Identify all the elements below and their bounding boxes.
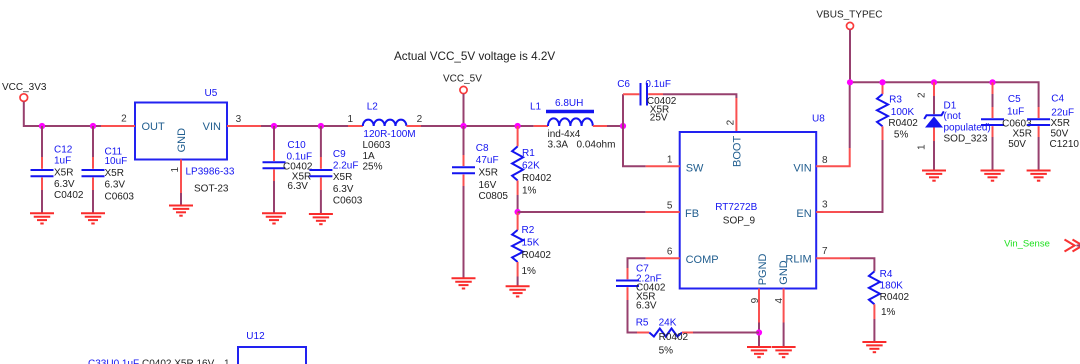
wire COMP to C7 [628, 258, 646, 268]
svg-text:6.3V: 6.3V [287, 181, 308, 192]
wire RLIM to R4 [850, 258, 874, 271]
svg-text:U8: U8 [812, 114, 825, 125]
svg-text:L0603: L0603 [363, 140, 391, 151]
svg-text:C33U0.1uF: C33U0.1uF [88, 359, 139, 364]
svg-text:62K: 62K [522, 161, 540, 172]
power port VCC_5V [443, 74, 482, 94]
power port VCC_3V3 [2, 82, 47, 101]
svg-text:VCC_3V3: VCC_3V3 [2, 82, 47, 93]
svg-text:LP3986-33: LP3986-33 [186, 166, 235, 177]
svg-text:3.3A: 3.3A [548, 140, 569, 151]
svg-text:5%: 5% [894, 130, 909, 141]
svg-text:SOD_323: SOD_323 [944, 134, 988, 145]
svg-text:6.3V: 6.3V [333, 184, 354, 195]
ground R4 [862, 342, 886, 352]
pin 8 VIN stub [816, 148, 850, 166]
wire L1 to SW node [607, 125, 623, 127]
svg-text:10uF: 10uF [105, 156, 128, 167]
inductor L1 [530, 98, 615, 151]
svg-text:C6: C6 [617, 79, 630, 90]
svg-text:1A: 1A [363, 151, 376, 162]
svg-text:2: 2 [917, 92, 928, 98]
svg-text:X5R: X5R [54, 167, 73, 178]
wire SW node up to C6 [622, 94, 624, 126]
diode D1 zener [917, 82, 991, 170]
capacitor C4 [1027, 93, 1079, 170]
svg-text:1%: 1% [522, 186, 537, 197]
svg-text:R3: R3 [889, 95, 902, 106]
svg-text:4: 4 [774, 298, 785, 304]
svg-text:50V: 50V [1008, 139, 1026, 150]
pin 1 SW stub [646, 165, 680, 167]
svg-text:C12: C12 [54, 145, 73, 156]
ground U5 [169, 206, 193, 216]
resistor R2 [512, 212, 551, 286]
ground R2 [506, 286, 530, 296]
node junction C11 [90, 123, 96, 129]
svg-text:X5R: X5R [333, 172, 352, 183]
svg-text:R1: R1 [522, 148, 535, 159]
svg-text:9: 9 [750, 297, 761, 303]
svg-text:5%: 5% [659, 345, 674, 356]
node junction SW [620, 123, 626, 129]
ground C8 [452, 278, 476, 288]
wire VIN vertical [849, 82, 851, 148]
wire GND down [783, 323, 785, 348]
svg-text:GND: GND [778, 260, 790, 285]
svg-text:BOOT: BOOT [732, 136, 744, 167]
pin 7 RLIM stub [816, 257, 850, 259]
svg-text:OUT: OUT [142, 121, 166, 133]
svg-text:X5R: X5R [105, 168, 124, 179]
node junction VCC_5V [460, 123, 466, 129]
resistor R3 [877, 82, 918, 140]
svg-text:C1210: C1210 [1050, 139, 1080, 150]
pin 5 FB stub [646, 211, 680, 213]
wire top bus [850, 82, 1039, 107]
inductor L2 [347, 101, 422, 172]
svg-text:GND: GND [176, 128, 188, 153]
node junction C9 [318, 123, 324, 129]
wire L2 to L1 [421, 125, 534, 127]
capacitor C7 [616, 264, 666, 333]
svg-text:(not: (not [944, 111, 961, 122]
wire FB [518, 211, 646, 213]
svg-text:2: 2 [417, 114, 423, 125]
capacitor C10 [263, 126, 313, 213]
node junction D1 top [931, 79, 937, 85]
wire EN to R3 [850, 140, 883, 212]
wire VCC_3V3 vertical+horizontal [24, 102, 101, 127]
wire PGND down [758, 323, 760, 348]
svg-text:C9: C9 [333, 149, 346, 160]
svg-text:R0402: R0402 [522, 250, 552, 261]
pin 2 BOOT stub [735, 98, 737, 132]
capacitor C9 [309, 126, 362, 214]
svg-text:C4: C4 [1051, 93, 1064, 104]
svg-text:X5R: X5R [479, 168, 498, 179]
svg-text:PGND: PGND [757, 253, 769, 285]
svg-text:6.8UH: 6.8UH [555, 98, 583, 109]
ground C9 [309, 214, 333, 224]
ground PGND [747, 347, 771, 357]
pin 3 VIN stub [227, 125, 261, 127]
svg-text:1: 1 [170, 167, 181, 173]
svg-text:COMP: COMP [686, 254, 719, 266]
pin 9 PGND stub [758, 289, 760, 323]
svg-text:25V: 25V [650, 112, 668, 123]
svg-text:ind-4x4: ind-4x4 [548, 129, 581, 140]
svg-text:25%: 25% [363, 161, 383, 172]
svg-text:C0402 X5R 16V: C0402 X5R 16V [142, 359, 215, 364]
node junction FB [515, 209, 521, 215]
svg-text:C0402: C0402 [54, 190, 84, 201]
svg-text:1uF: 1uF [1007, 106, 1024, 117]
IC U8 RT7272B [680, 114, 826, 289]
ground C5 [981, 171, 1005, 181]
node junction C10 [271, 123, 277, 129]
svg-text:SOP_9: SOP_9 [723, 216, 756, 227]
svg-text:1uF: 1uF [54, 155, 71, 166]
capacitor C6 [617, 79, 677, 123]
svg-text:120R-100M: 120R-100M [363, 129, 415, 140]
pin 4 GND stub [783, 289, 785, 323]
svg-text:populated): populated) [944, 122, 991, 133]
node junction C12 [39, 123, 45, 129]
svg-text:2: 2 [121, 114, 127, 125]
svg-text:1: 1 [224, 359, 230, 364]
svg-text:R0402: R0402 [888, 118, 918, 129]
svg-text:U5: U5 [205, 88, 218, 99]
svg-text:1: 1 [667, 154, 673, 165]
svg-text:X5R: X5R [1051, 118, 1070, 129]
regulator U5 LP3986-33 [135, 88, 235, 195]
svg-text:6.3V: 6.3V [54, 179, 75, 190]
svg-text:C0805: C0805 [479, 191, 509, 202]
svg-text:VIN: VIN [793, 163, 811, 175]
svg-text:24K: 24K [659, 318, 677, 329]
svg-text:5: 5 [667, 200, 673, 211]
svg-text:2: 2 [726, 119, 737, 125]
svg-text:Vin_Sense: Vin_Sense [1004, 239, 1050, 250]
svg-text:C0603: C0603 [333, 195, 363, 206]
node Vin_Sense port [1004, 239, 1080, 252]
node junction PGND/R5 [756, 329, 762, 335]
capacitor C12 [31, 126, 84, 213]
svg-text:6.3V: 6.3V [636, 301, 657, 312]
wire VBUS down [849, 30, 851, 83]
wire SW node down to SW pin [623, 126, 646, 166]
svg-text:47uF: 47uF [476, 155, 499, 166]
node junction R1 [515, 123, 521, 129]
svg-text:L2: L2 [367, 101, 379, 112]
svg-text:VBUS_TYPEC: VBUS_TYPEC [816, 10, 882, 21]
svg-text:R0402: R0402 [659, 332, 689, 343]
svg-text:15K: 15K [522, 238, 540, 249]
pin 6 COMP stub [646, 257, 680, 259]
svg-text:R2: R2 [522, 225, 535, 236]
svg-text:C5: C5 [1008, 94, 1021, 105]
capacitor C33 label row (clipped) [88, 359, 230, 364]
svg-text:U12: U12 [246, 331, 265, 342]
svg-text:X5R: X5R [1013, 129, 1032, 140]
svg-text:SOT-23: SOT-23 [194, 184, 229, 195]
svg-text:1%: 1% [522, 266, 537, 277]
capacitor C8 [452, 126, 508, 278]
svg-text:0.04ohm: 0.04ohm [577, 140, 616, 151]
svg-text:VIN: VIN [203, 121, 221, 133]
svg-text:100K: 100K [891, 107, 915, 118]
svg-text:16V: 16V [479, 180, 497, 191]
svg-text:C8: C8 [476, 143, 489, 154]
svg-text:0.1uF: 0.1uF [645, 79, 671, 90]
pin 2 OUT stub [101, 125, 135, 127]
node junction VBUS [847, 79, 853, 85]
capacitor C5 [981, 82, 1032, 170]
svg-text:180K: 180K [880, 281, 904, 292]
svg-text:8: 8 [822, 155, 828, 166]
svg-text:1: 1 [917, 144, 928, 150]
node junction C5 top [989, 79, 995, 85]
ground C11 [81, 213, 105, 223]
pin 1 GND stub [180, 160, 182, 194]
svg-text:VCC_5V: VCC_5V [443, 74, 482, 85]
capacitor C11 [82, 126, 135, 213]
resistor R5 [636, 318, 759, 357]
svg-text:Actual VCC_5V voltage is 4.2V: Actual VCC_5V voltage is 4.2V [394, 50, 555, 63]
svg-text:1%: 1% [881, 307, 896, 318]
resistor R1 [512, 126, 552, 212]
svg-text:L1: L1 [530, 101, 542, 112]
svg-text:6.3V: 6.3V [105, 180, 126, 191]
svg-text:FB: FB [685, 208, 699, 220]
svg-text:R5: R5 [636, 318, 649, 329]
svg-text:1: 1 [347, 114, 353, 125]
svg-text:2.2uF: 2.2uF [333, 161, 359, 172]
svg-text:6: 6 [667, 246, 673, 257]
pin 3 EN stub [816, 211, 850, 213]
ground D1 [922, 171, 946, 181]
svg-text:7: 7 [822, 246, 828, 257]
svg-text:R4: R4 [880, 269, 893, 280]
wire VCC_5V down [463, 94, 465, 126]
svg-text:50V: 50V [1051, 129, 1069, 140]
wire VIN to L2 [261, 125, 348, 127]
svg-text:R0402: R0402 [522, 173, 552, 184]
svg-text:22uF: 22uF [1051, 107, 1074, 118]
svg-text:3: 3 [236, 114, 242, 125]
power port VBUS_TYPEC [816, 10, 882, 30]
wire C6 to BOOT [663, 94, 736, 98]
ground C10 [262, 213, 286, 223]
IC U12 (partial) [238, 331, 306, 364]
svg-text:RT7272B: RT7272B [715, 202, 757, 213]
svg-text:3: 3 [822, 200, 828, 211]
ground C12 [30, 213, 54, 223]
svg-text:C10: C10 [287, 140, 306, 151]
resistor R4 [869, 269, 910, 342]
svg-text:EN: EN [796, 208, 811, 220]
svg-text:SW: SW [686, 162, 704, 174]
svg-text:R0402: R0402 [880, 292, 910, 303]
svg-text:D1: D1 [944, 100, 957, 111]
ground C4 [1027, 171, 1051, 181]
svg-text:C0603: C0603 [105, 191, 135, 202]
ground GND4 [772, 347, 796, 357]
node junction R3 top [879, 79, 885, 85]
